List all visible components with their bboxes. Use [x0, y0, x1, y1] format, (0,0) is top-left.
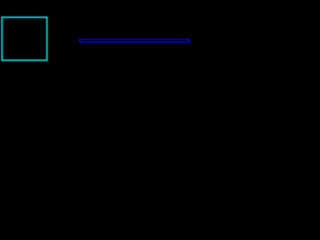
cyan square outline — [2, 17, 47, 60]
blue bar outline — [80, 39, 190, 42]
